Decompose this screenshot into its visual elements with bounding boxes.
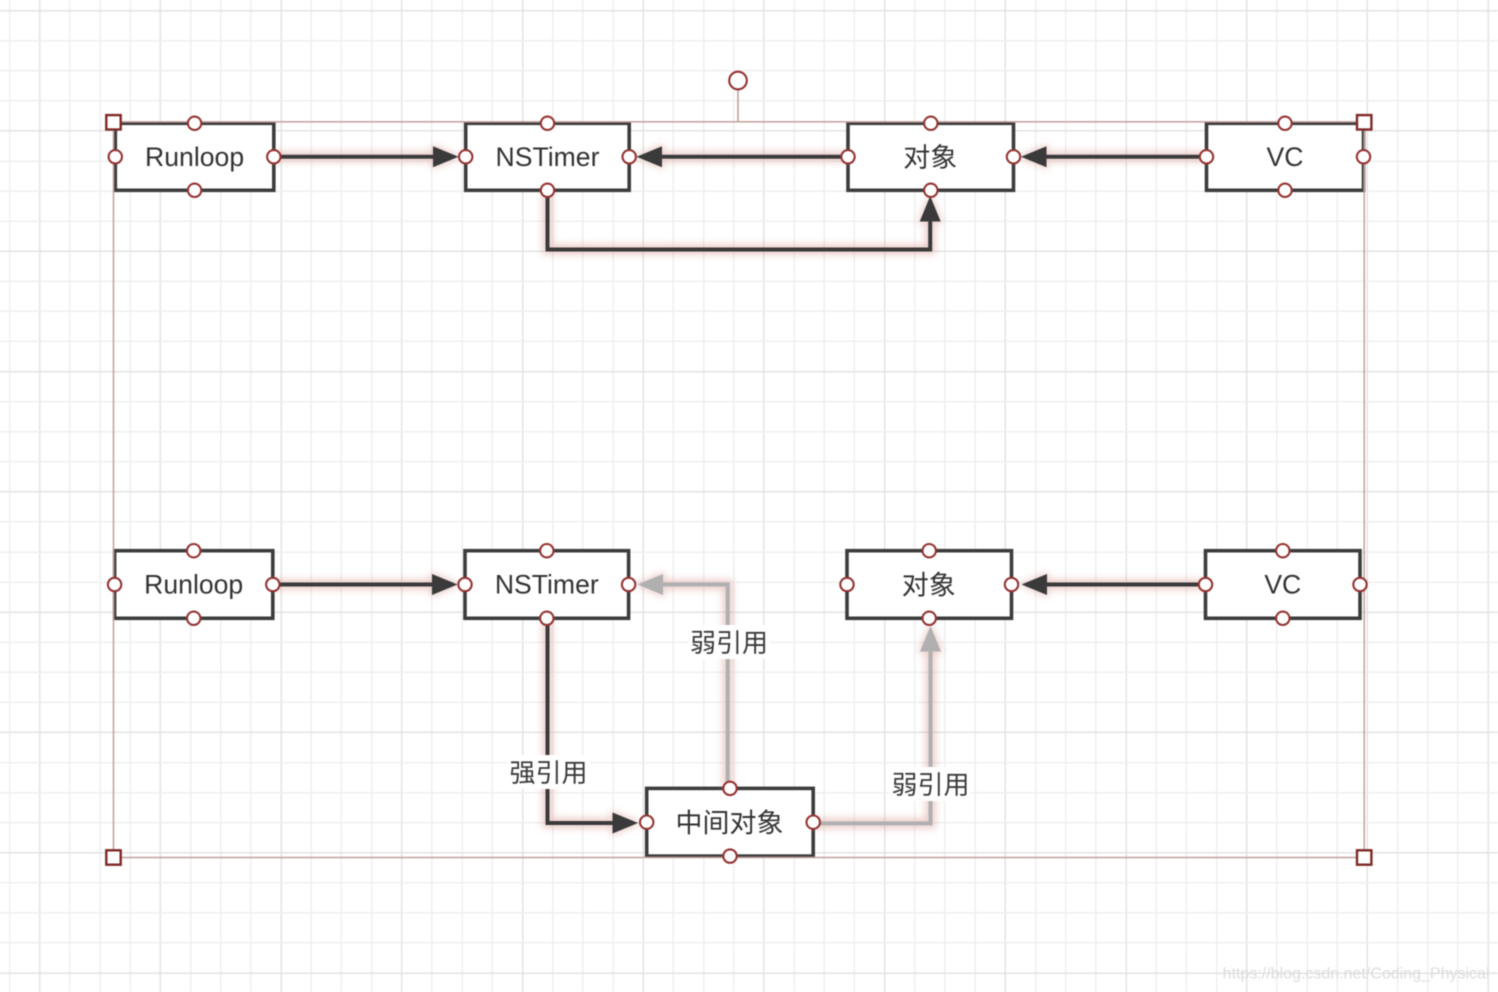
arrow NSTimer(bottom) to 中间对象, strong ref [548,620,639,834]
box 对象 (top row) [848,123,1014,190]
label 弱引用 (weak reference, right) [890,767,972,801]
box Runloop (top row) [115,123,273,190]
box Runloop (bottom row) [115,551,273,619]
arrow Runloop(top) to NSTimer(top), strong [274,146,459,167]
svg-text:VC: VC [1264,570,1301,600]
connection points of nstimer1 [541,117,554,130]
svg-text:NSTimer: NSTimer [495,570,599,600]
connection points of runloop2 [187,544,200,557]
connection points of nstimer2 [540,544,553,557]
connection points of vc2 [1276,544,1289,557]
arrow VC(bottom) to 对象(bottom) [1022,574,1205,595]
connection points of obj2 [923,544,936,557]
svg-text:Runloop: Runloop [144,570,243,600]
box VC (bottom row) [1206,551,1361,619]
arrow 中间对象 to 对象(bottom), weak ref gray [814,626,942,823]
connection points of runloop1 [188,117,201,130]
arrow 对象(top) to NSTimer(top) [637,146,849,167]
arrow 中间对象 to NSTimer(bottom), weak ref gray [638,574,728,788]
selection rectangle [114,122,1365,858]
svg-text:VC: VC [1267,142,1304,172]
svg-text:https://blog.csdn.net/Coding_P: https://blog.csdn.net/Coding_Physical [1223,966,1490,983]
rotation handle [729,72,747,90]
label 强引用 (strong reference) [508,755,590,789]
box 中间对象 [647,788,814,856]
arrow Runloop(bottom) to NSTimer(bottom) [273,574,458,595]
box NSTimer (bottom row) [465,551,629,619]
connection points of vc1 [1278,117,1291,130]
box 对象 (bottom row) [847,551,1012,619]
svg-text:NSTimer: NSTimer [496,142,600,172]
box NSTimer (top row) [466,123,630,190]
connection points of obj1 [924,117,937,130]
svg-text:Runloop: Runloop [145,142,244,172]
rotation handle stem [737,89,739,122]
connection points of mid [723,782,736,795]
arrow VC(top) to 对象(top) [1021,146,1206,167]
box VC (top row) [1207,123,1364,190]
selection corner handles [106,115,120,129]
label 弱引用 (weak reference, middle) [688,625,770,659]
arrow NSTimer(top) bottom loop to 对象(top) bottom [548,192,941,250]
